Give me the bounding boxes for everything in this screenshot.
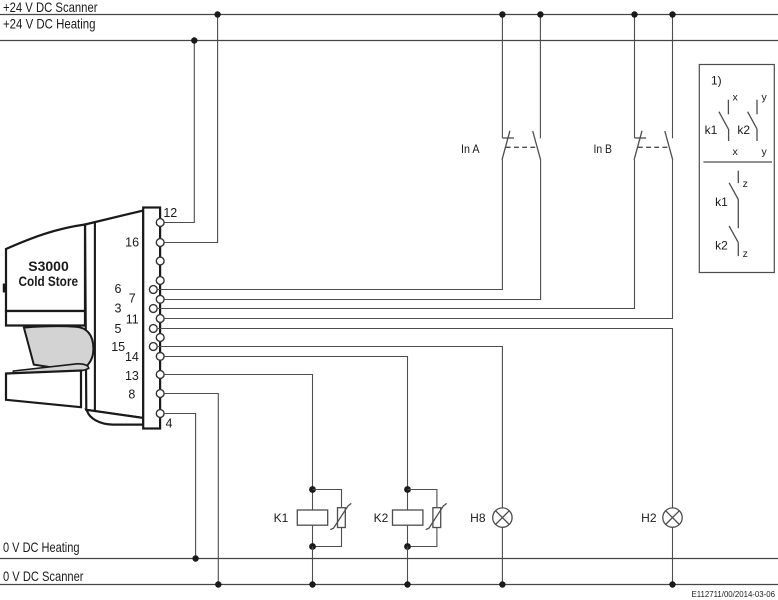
front face panel bbox=[85, 211, 143, 419]
wire pin 7 to switch In A channel 2 bbox=[165, 160, 541, 300]
+24 V DC Heating rail bbox=[0, 16, 778, 41]
svg-text:14: 14 bbox=[125, 350, 139, 364]
wire pin 13 to relay K1 bbox=[165, 375, 313, 511]
svg-text:z: z bbox=[743, 248, 748, 260]
wire pin 12 to +24 V heating bbox=[161, 41, 194, 223]
pin 12 bbox=[156, 206, 177, 226]
separator groove line bbox=[94, 222, 96, 410]
svg-text:Cold Store: Cold Store bbox=[19, 273, 79, 289]
wire pin 6 to switch In A channel 1 bbox=[158, 160, 502, 290]
svg-text:y: y bbox=[762, 146, 768, 158]
svg-text:1): 1) bbox=[711, 74, 722, 88]
pin unlabeled c bbox=[156, 334, 164, 342]
svg-text:+24 V DC Heating: +24 V DC Heating bbox=[3, 16, 96, 32]
wire pin 5 to lamp H2 bbox=[158, 329, 673, 508]
svg-text:5: 5 bbox=[115, 322, 122, 336]
pin 13 bbox=[125, 369, 164, 383]
svg-text:15: 15 bbox=[111, 340, 125, 354]
pin unlabeled b bbox=[156, 277, 164, 285]
lamp H2 bbox=[641, 508, 682, 588]
svg-text:In A: In A bbox=[461, 142, 480, 156]
svg-text:S3000: S3000 bbox=[28, 258, 69, 274]
relay K1 bbox=[274, 486, 352, 588]
svg-text:k2: k2 bbox=[737, 123, 750, 137]
0 V DC Heating rail bbox=[0, 539, 778, 559]
legend divider bbox=[703, 161, 772, 163]
svg-text:x: x bbox=[733, 146, 739, 158]
+24 V DC Scanner rail bbox=[0, 0, 778, 15]
pin 5 bbox=[115, 322, 158, 336]
svg-text:3: 3 bbox=[115, 302, 122, 316]
svg-text:0 V DC Scanner: 0 V DC Scanner bbox=[3, 568, 84, 584]
switch In A mechanical link bbox=[506, 146, 537, 148]
bottom foot bbox=[86, 410, 143, 425]
pin 14 bbox=[125, 350, 164, 364]
switch In B mechanical link bbox=[638, 146, 669, 148]
legend series contact k1 (z) bbox=[737, 171, 739, 184]
svg-text:H2: H2 bbox=[641, 511, 657, 525]
junction dot heating rail x194 bbox=[191, 37, 197, 43]
wire pin 8 to 0 V scanner bbox=[165, 394, 219, 585]
svg-text:k1: k1 bbox=[715, 195, 728, 209]
svg-text:16: 16 bbox=[125, 235, 139, 249]
switch In A channel 1 bbox=[499, 11, 514, 160]
svg-text:7: 7 bbox=[129, 292, 136, 306]
svg-text:z: z bbox=[743, 178, 748, 190]
legend box bbox=[699, 65, 774, 273]
junction dot 0V scanner x218 bbox=[215, 581, 221, 587]
back panel with label bbox=[6, 225, 85, 312]
svg-text:x: x bbox=[733, 91, 739, 103]
scanner S3000 body bbox=[3, 211, 143, 425]
pin 7 bbox=[129, 292, 164, 306]
svg-text:In B: In B bbox=[594, 142, 613, 156]
wire pin 3 to switch In B channel 1 bbox=[158, 160, 635, 309]
junction dot 0V heating x195 bbox=[192, 555, 198, 561]
pin 8 bbox=[128, 388, 164, 402]
svg-text:K1: K1 bbox=[274, 511, 289, 525]
junction dot scanner rail x217 bbox=[214, 11, 220, 17]
window lower lip bbox=[13, 364, 88, 373]
switch In B channel 1 bbox=[631, 11, 646, 160]
svg-text:y: y bbox=[762, 91, 768, 103]
pin 4 bbox=[156, 410, 172, 431]
relay K2 bbox=[374, 486, 447, 588]
svg-text:0 V DC Heating: 0 V DC Heating bbox=[3, 539, 80, 555]
wire pin 4 to 0 V heating bbox=[165, 414, 196, 559]
lamp H8 bbox=[470, 508, 512, 588]
svg-text:H8: H8 bbox=[470, 511, 486, 525]
svg-text:13: 13 bbox=[125, 369, 139, 383]
svg-text:+24 V DC Scanner: +24 V DC Scanner bbox=[3, 0, 98, 15]
pin 11 bbox=[126, 313, 164, 327]
pin 16 bbox=[125, 235, 164, 249]
0 V DC Scanner rail bbox=[0, 568, 778, 585]
wire pin 11 to switch In B channel 2 bbox=[165, 160, 673, 319]
lower white block bbox=[6, 371, 81, 408]
gray scan window bbox=[24, 326, 94, 371]
svg-text:8: 8 bbox=[128, 388, 135, 402]
legend series contact k2 (z) bbox=[729, 226, 738, 243]
switch In B channel 2 bbox=[665, 11, 676, 160]
legend contact k1 (x) bbox=[727, 100, 729, 115]
svg-text:11: 11 bbox=[126, 313, 139, 327]
left edge tick bbox=[3, 284, 6, 293]
svg-text:6: 6 bbox=[115, 282, 122, 296]
switch In A channel 2 bbox=[533, 11, 544, 160]
pin 15 bbox=[111, 340, 157, 354]
wire pin 15 to lamp H8 bbox=[158, 347, 502, 508]
svg-text:k2: k2 bbox=[715, 238, 728, 252]
svg-text:k1: k1 bbox=[705, 123, 718, 137]
legend contact k2 (y) bbox=[756, 100, 758, 115]
svg-text:K2: K2 bbox=[374, 511, 389, 525]
wire pin 14 to relay K2 bbox=[165, 357, 408, 511]
pin 3 bbox=[115, 302, 158, 316]
svg-text:12: 12 bbox=[163, 206, 177, 220]
svg-text:4: 4 bbox=[166, 416, 173, 430]
pin unlabeled a bbox=[156, 257, 164, 265]
svg-text:E112711/00/2014-03-06: E112711/00/2014-03-06 bbox=[692, 590, 776, 599]
band under label panel bbox=[6, 311, 85, 326]
connector plate bbox=[143, 208, 160, 429]
pin 6 bbox=[115, 282, 158, 296]
wire pin 16 to +24 V scanner bbox=[161, 15, 218, 243]
